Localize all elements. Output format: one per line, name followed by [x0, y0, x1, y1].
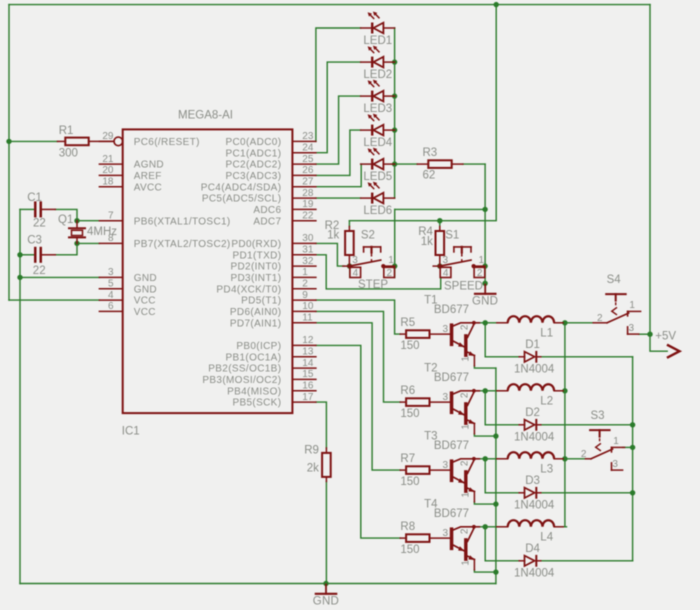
- transistor T1 second collector: [468, 324, 474, 337]
- resistor R2: [348, 227, 350, 232]
- IC pin 15 stub: [292, 378, 316, 380]
- node GND symbol/R9: [323, 581, 328, 586]
- svg-text:PB5(SCK): PB5(SCK): [232, 398, 281, 409]
- svg-text:15: 15: [302, 369, 314, 380]
- svg-text:R6: R6: [400, 385, 415, 397]
- svg-text:2: 2: [302, 279, 308, 290]
- IC pin 6 stub: [99, 310, 122, 312]
- switch S1 actuator: [454, 246, 471, 248]
- node T1 collector: [483, 320, 488, 325]
- svg-text:1N4004: 1N4004: [514, 364, 555, 376]
- svg-text:PB3(MOSI/OC2): PB3(MOSI/OC2): [202, 375, 281, 386]
- wire PC0 to LED1: [316, 28, 361, 141]
- IC pin 8 stub: [99, 242, 122, 244]
- svg-text:LED6: LED6: [363, 205, 392, 217]
- svg-text:3: 3: [108, 267, 114, 278]
- IC pin 28 stub: [292, 197, 316, 199]
- transistor T3 emitter: [468, 488, 475, 491]
- wire S3 pin1 to diode rail: [623, 446, 633, 448]
- wire T3 collector node: [479, 458, 497, 460]
- IC pin 9 stub: [292, 299, 316, 301]
- svg-text:+5V: +5V: [655, 331, 676, 343]
- svg-text:PC4(ADC4/SDA): PC4(ADC4/SDA): [201, 182, 282, 193]
- svg-text:S3: S3: [591, 410, 605, 422]
- wire T1 emitter to bus: [474, 366, 496, 368]
- transistor T4 collector: [453, 527, 479, 530]
- svg-text:22: 22: [33, 218, 46, 230]
- diode D2: [519, 424, 524, 426]
- svg-text:PB6(XTAL1/TOSC1): PB6(XTAL1/TOSC1): [134, 216, 231, 227]
- wire T4 collector node: [479, 526, 497, 528]
- wire PD6 pin10 to R6: [316, 311, 400, 402]
- svg-text:4: 4: [353, 268, 359, 279]
- wire LED6 return to button rail: [395, 208, 485, 210]
- svg-text:29: 29: [102, 131, 114, 142]
- wire coil common rail: [564, 323, 566, 527]
- wire S2 pin1-pin2 rail: [394, 209, 396, 277]
- IC U-box MEGA8-AI: [123, 129, 293, 413]
- node L3/S3: [562, 456, 567, 461]
- svg-text:32: 32: [302, 256, 314, 267]
- node S2 pin3: [347, 263, 352, 268]
- svg-text:S2: S2: [361, 230, 375, 242]
- svg-text:1: 1: [388, 255, 394, 266]
- transistor T2 emitter: [468, 420, 475, 423]
- switch S4 lever: [607, 313, 629, 323]
- IC pin 13 stub: [292, 356, 316, 358]
- wire R4 top: [439, 221, 441, 227]
- svg-text:3: 3: [443, 255, 449, 266]
- svg-text:BD677: BD677: [434, 440, 469, 452]
- node T3 collector: [483, 456, 488, 461]
- switch S2 actuator: [364, 246, 381, 248]
- resistor R6: [400, 401, 406, 403]
- wire D2 cathode to diode rail: [541, 424, 633, 426]
- transistor T2 second collector: [468, 392, 474, 405]
- IC pin 29 stub with reset bubble: [99, 140, 114, 142]
- svg-text:D1: D1: [525, 339, 540, 351]
- wire GND left rail: [19, 209, 21, 583]
- node T3 emitter/bus: [493, 501, 498, 506]
- node LED4: [392, 127, 397, 132]
- wire GND to pin 3: [20, 276, 99, 278]
- svg-text:12: 12: [302, 335, 314, 346]
- diode D1: [519, 356, 524, 358]
- svg-text:1: 1: [461, 492, 472, 498]
- wire L1 to S4 pin2: [563, 322, 593, 324]
- svg-text:17: 17: [302, 392, 314, 403]
- svg-text:10: 10: [302, 301, 314, 312]
- svg-text:LED4: LED4: [363, 137, 392, 149]
- svg-text:2: 2: [581, 449, 587, 460]
- svg-text:PD7(AIN1): PD7(AIN1): [230, 318, 282, 329]
- svg-text:3: 3: [442, 528, 448, 539]
- node +5V top tee: [494, 2, 499, 7]
- svg-text:2: 2: [387, 268, 393, 279]
- IC pin 24 stub: [292, 152, 316, 154]
- svg-text:13: 13: [302, 347, 314, 358]
- IC pin 5 stub: [99, 288, 122, 290]
- switch S2 pin 4 box: [350, 267, 361, 277]
- transistor T1 emitter: [468, 352, 475, 355]
- wire +5V rail to R2 R4 pullups: [349, 5, 496, 221]
- svg-text:LED5: LED5: [363, 171, 392, 183]
- transistor T4 base bar: [450, 527, 454, 550]
- svg-text:PB0(ICP): PB0(ICP): [236, 341, 281, 352]
- svg-text:PC5(ADC5/SCL): PC5(ADC5/SCL): [202, 194, 282, 205]
- wire PC1 to LED2: [316, 62, 361, 153]
- svg-text:R8: R8: [400, 521, 415, 533]
- wire T2 collector to D2: [485, 391, 519, 425]
- svg-text:2: 2: [460, 324, 471, 330]
- node S2 pin1: [392, 263, 397, 268]
- wire PD5 pin9 to R5: [316, 300, 400, 334]
- resistor R8: [400, 537, 406, 539]
- transistor T3 base bar: [450, 459, 454, 482]
- node S1 pin1: [482, 263, 487, 268]
- wire +5V top border: [9, 4, 650, 6]
- IC pin 23 stub: [292, 140, 316, 142]
- transistor T3 second collector: [468, 460, 474, 473]
- wire XTAL2 net C3-Q1-pin8: [55, 243, 99, 254]
- wire PB0 pin12 to R8: [316, 345, 400, 538]
- svg-text:1N4004: 1N4004: [514, 500, 555, 512]
- svg-text:6: 6: [108, 301, 114, 312]
- svg-text:ADC7: ADC7: [253, 216, 281, 227]
- svg-text:2: 2: [460, 460, 471, 466]
- svg-text:24: 24: [302, 142, 314, 153]
- wire XTAL1 net C1-Q1-pin7: [55, 209, 99, 220]
- capacitor C3: [34, 247, 37, 263]
- IC pin 19 stub: [292, 208, 316, 210]
- svg-text:1N4004: 1N4004: [514, 568, 555, 580]
- wire GND to C3: [20, 254, 34, 256]
- LED LED1: [361, 27, 371, 29]
- IC pin 30 stub: [292, 242, 316, 244]
- node S4 pin3/+5V: [647, 332, 652, 337]
- node T2 collector: [483, 388, 488, 393]
- svg-text:IC1: IC1: [122, 426, 140, 438]
- svg-text:5: 5: [108, 279, 114, 290]
- svg-text:25: 25: [302, 154, 314, 165]
- node T4 collector: [483, 524, 488, 529]
- wire T3 collector to D3: [485, 459, 519, 493]
- svg-text:1: 1: [461, 356, 472, 362]
- wire T2 collector node: [479, 390, 497, 392]
- IC pin 2 stub: [292, 288, 316, 290]
- svg-text:R9: R9: [304, 444, 319, 456]
- IC pin 12 stub: [292, 344, 316, 346]
- switch S1 lever: [440, 260, 471, 266]
- IC pin 7 stub: [99, 220, 122, 222]
- svg-text:1: 1: [302, 267, 308, 278]
- wire D4 cathode to diode rail: [541, 560, 633, 562]
- wire R2 top: [348, 221, 350, 227]
- switch S2 lever: [350, 260, 381, 266]
- LED LED2: [361, 61, 371, 63]
- LED LED3: [361, 95, 371, 97]
- IC pin 16 stub: [292, 390, 316, 392]
- svg-text:300: 300: [59, 148, 78, 160]
- wire LED cathode rail: [394, 28, 396, 198]
- svg-text:PC2(ADC2): PC2(ADC2): [225, 160, 281, 171]
- wire PD1 pin31 to S1 pin4: [316, 255, 441, 289]
- resistor R9: [325, 448, 327, 453]
- svg-text:1k: 1k: [327, 229, 339, 241]
- node +5V/R1: [6, 139, 11, 144]
- svg-text:PC6(/RESET): PC6(/RESET): [134, 137, 200, 148]
- switch S3 pin 2 stub: [586, 458, 592, 460]
- wire PC3 to LED4: [316, 130, 361, 175]
- svg-text:PD0(RXD): PD0(RXD): [231, 239, 281, 250]
- svg-text:L4: L4: [540, 532, 553, 544]
- ground symbol bottom: [325, 585, 327, 594]
- transistor T2 second base bar: [464, 402, 467, 425]
- wire D1 cathode to diode rail: [541, 356, 633, 358]
- wire PD0 pin30 to S2 pin3: [316, 243, 344, 266]
- svg-text:1: 1: [613, 436, 619, 447]
- diode D4: [519, 560, 524, 562]
- transistor T1 second base bar: [464, 334, 467, 357]
- wire GND bottom rail: [20, 583, 496, 585]
- svg-text:L2: L2: [540, 396, 553, 408]
- svg-text:23: 23: [302, 131, 314, 142]
- wire +5V left rail: [8, 5, 10, 301]
- svg-text:PC1(ADC1): PC1(ADC1): [225, 148, 281, 159]
- node GND/C3: [17, 252, 22, 257]
- svg-text:150: 150: [400, 340, 419, 352]
- switch S3 spring chevron: [596, 444, 601, 451]
- switch S4 pin 1: [627, 311, 629, 316]
- svg-text:1N4004: 1N4004: [514, 432, 555, 444]
- IC pin 26 stub: [292, 174, 316, 176]
- svg-text:S1: S1: [445, 230, 459, 242]
- svg-text:PB7(XTAL2/TOSC2): PB7(XTAL2/TOSC2): [134, 239, 231, 250]
- wire R9 bottom to GND rail: [325, 481, 327, 583]
- wire T3 emitter to bus: [474, 502, 496, 504]
- svg-text:150: 150: [400, 408, 419, 420]
- svg-text:20: 20: [102, 165, 114, 176]
- svg-text:26: 26: [302, 165, 314, 176]
- wire L2 right: [563, 390, 566, 392]
- svg-text:R1: R1: [59, 125, 74, 137]
- svg-text:62: 62: [423, 170, 436, 182]
- node D2/diode rail: [630, 422, 635, 427]
- svg-text:PC0(ADC0): PC0(ADC0): [225, 137, 281, 148]
- node S1 pin3: [437, 263, 442, 268]
- switch S2 pin 3 stub: [343, 265, 350, 267]
- node T4 emitter/bus: [493, 569, 498, 574]
- svg-text:LED1: LED1: [363, 35, 392, 47]
- svg-text:3: 3: [442, 392, 448, 403]
- node S1 pin2/GND: [482, 281, 487, 286]
- svg-text:22: 22: [302, 210, 314, 221]
- resistor R7: [400, 469, 406, 471]
- LED LED5: [361, 163, 371, 165]
- svg-text:2: 2: [460, 392, 471, 398]
- svg-text:11: 11: [302, 313, 313, 324]
- switch S1 pin 4 box: [440, 267, 451, 277]
- svg-text:4: 4: [443, 268, 449, 279]
- IC pin 17 stub: [292, 401, 316, 403]
- wire PD7 pin11 to R7: [316, 323, 400, 470]
- switch S4 pin 3: [627, 327, 629, 334]
- wire L4 right: [563, 526, 566, 528]
- svg-text:PB4(MISO): PB4(MISO): [227, 386, 281, 397]
- switch S2 pin 1 stub: [383, 265, 395, 267]
- transistor T2 inner emitter: [453, 409, 464, 415]
- IC pin 1 stub: [292, 276, 316, 278]
- resistor R3: [417, 163, 428, 165]
- svg-text:R7: R7: [400, 453, 415, 465]
- IC pin 4 stub: [99, 299, 122, 301]
- LED LED4: [361, 129, 371, 131]
- svg-text:1: 1: [461, 424, 472, 430]
- wire PC2 to LED3: [316, 96, 361, 164]
- transistor T4 emitter: [468, 556, 475, 559]
- wire R3 right: [463, 163, 485, 165]
- svg-text:2: 2: [597, 313, 603, 324]
- wire R3 rail down to GND of buttons: [484, 164, 486, 284]
- wire T4 collector to D4: [485, 527, 519, 561]
- IC pin 11 stub: [292, 322, 316, 324]
- transistor T4 second base bar: [464, 538, 467, 561]
- IC pin 18 stub: [99, 186, 122, 188]
- inductor L1: [497, 322, 508, 324]
- wire T2 emitter to bus: [474, 434, 496, 436]
- svg-text:1: 1: [629, 300, 635, 311]
- svg-text:PD4(XCK/T0): PD4(XCK/T0): [216, 284, 281, 295]
- resistor R1: [58, 140, 66, 142]
- transistor T4 second collector: [468, 528, 474, 541]
- switch S4 handle: [606, 293, 626, 295]
- switch S2 pin 2 box: [384, 267, 395, 277]
- node L1/common rail: [562, 320, 567, 325]
- svg-text:7: 7: [108, 210, 114, 221]
- wire S4 pin3 to +5V rail: [639, 333, 650, 335]
- diode D3: [519, 492, 524, 494]
- node XTAL1: [74, 218, 79, 223]
- IC pin 25 stub: [292, 163, 316, 165]
- svg-text:22: 22: [33, 265, 46, 277]
- svg-text:PD6(AIN0): PD6(AIN0): [230, 307, 282, 318]
- IC pin 31 stub: [292, 254, 316, 256]
- svg-text:ADC6: ADC6: [253, 205, 281, 216]
- wire PC5 to LED6: [316, 197, 361, 199]
- resistor R4: [439, 227, 441, 232]
- inductor L3: [497, 458, 508, 460]
- svg-text:21: 21: [102, 154, 114, 165]
- svg-text:3: 3: [612, 459, 618, 470]
- ground symbol near S1: [484, 285, 486, 294]
- wire T1 collector node: [479, 322, 497, 324]
- IC pin 20 stub: [99, 174, 122, 176]
- svg-text:3: 3: [352, 255, 358, 266]
- svg-text:AGND: AGND: [134, 160, 164, 171]
- svg-text:14: 14: [302, 358, 314, 369]
- svg-text:2k: 2k: [307, 463, 319, 475]
- svg-text:C1: C1: [27, 192, 42, 204]
- svg-text:1: 1: [479, 255, 485, 266]
- transistor T1 base bar: [450, 323, 454, 346]
- wire LED5 to R3: [395, 163, 418, 165]
- svg-text:3: 3: [442, 460, 448, 471]
- svg-text:30: 30: [302, 233, 314, 244]
- switch S4 pin 2 stub: [593, 322, 607, 324]
- wire S2 pin3 to pin4 box: [349, 266, 351, 277]
- svg-text:VCC: VCC: [134, 307, 156, 318]
- node T2 emitter/bus: [493, 433, 498, 438]
- transistor T1 inner emitter: [453, 341, 464, 347]
- switch S1 pin 3 stub: [433, 265, 440, 267]
- switch S3 handle: [590, 429, 610, 431]
- node L2/common rail: [562, 388, 567, 393]
- svg-text:150: 150: [400, 476, 419, 488]
- svg-text:SPEED: SPEED: [444, 280, 483, 292]
- wire PB5 pin17 to R9: [316, 402, 327, 448]
- svg-text:Q1: Q1: [58, 214, 73, 226]
- svg-text:AVCC: AVCC: [134, 182, 162, 193]
- svg-text:1: 1: [461, 560, 472, 566]
- svg-text:AREF: AREF: [134, 171, 162, 182]
- crystal Q1: [76, 221, 78, 229]
- svg-text:GND: GND: [313, 595, 339, 607]
- svg-text:1k: 1k: [421, 236, 433, 248]
- IC pin 10 stub: [292, 310, 316, 312]
- svg-text:PD5(T1): PD5(T1): [241, 296, 281, 307]
- IC pin 27 stub: [292, 186, 316, 188]
- node R4 top: [437, 218, 442, 223]
- svg-text:PD3(INT1): PD3(INT1): [230, 273, 281, 284]
- svg-text:3: 3: [629, 323, 635, 334]
- svg-text:PD2(INT0): PD2(INT0): [230, 262, 281, 273]
- svg-text:S4: S4: [607, 274, 622, 286]
- wire diode cathode rail: [632, 357, 634, 561]
- node LED5/R3: [392, 161, 397, 166]
- transistor T3 collector: [453, 459, 479, 462]
- transistor T3 second base bar: [464, 470, 467, 493]
- svg-text:GND: GND: [134, 284, 157, 295]
- svg-text:GND: GND: [134, 273, 157, 284]
- wire +5V to R1: [9, 140, 58, 142]
- svg-text:PD1(TXD): PD1(TXD): [232, 250, 281, 261]
- svg-text:D4: D4: [525, 543, 540, 555]
- svg-text:9: 9: [302, 290, 308, 301]
- svg-text:C3: C3: [27, 235, 42, 247]
- IC pin 21 stub: [99, 163, 122, 165]
- svg-text:R5: R5: [400, 317, 415, 329]
- wire D3 cathode to diode rail: [541, 492, 633, 494]
- node D3/diode rail: [630, 490, 635, 495]
- svg-text:31: 31: [302, 245, 314, 256]
- supply +5V arrow: [668, 345, 680, 357]
- svg-text:2: 2: [477, 268, 483, 279]
- wire T4 emitter to bus: [474, 570, 496, 572]
- resistor R5: [400, 333, 406, 335]
- svg-text:MEGA8-AI: MEGA8-AI: [178, 110, 233, 122]
- svg-text:18: 18: [102, 176, 114, 187]
- transistor T2 base bar: [450, 391, 454, 414]
- wire T1 collector to D1: [485, 323, 519, 357]
- wire emitter bus down to GND rail: [495, 368, 497, 583]
- svg-text:BD677: BD677: [434, 508, 469, 520]
- svg-text:27: 27: [302, 176, 314, 187]
- svg-text:2: 2: [460, 528, 471, 534]
- svg-text:BD677: BD677: [434, 372, 469, 384]
- switch S3 pin 1: [611, 447, 613, 452]
- IC pin 3 stub: [99, 276, 122, 278]
- wire +5V to VCC pin 4: [9, 299, 99, 301]
